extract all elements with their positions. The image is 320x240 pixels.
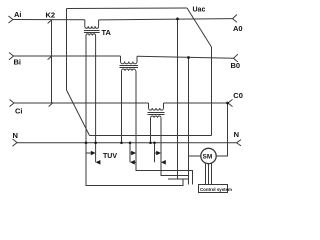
wire motor leads to control box: [206, 163, 212, 184]
wire N line: [17, 142, 237, 144]
wire TUV tap C central hanging from N: [154, 143, 156, 163]
wire phase A line left: [13, 19, 85, 21]
wire bus joining A0 B0 taps: [168, 178, 189, 180]
wire TUV arrow stub B lower: [135, 161, 137, 163]
switch K2 blade on phase A: [48, 19, 53, 23]
wire K2 linkage vertical: [51, 20, 53, 103]
motor SM circle: [201, 148, 216, 163]
terminal A0: [233, 15, 237, 23]
svg-text:Uac: Uac: [193, 7, 206, 14]
wire TA-B secondary right lead going to bus: [136, 71, 193, 185]
junction dot N tap C central: [153, 142, 156, 145]
Uac loop left vertical: [66, 9, 68, 91]
wire TA-C secondary left lead ends at N: [150, 118, 152, 143]
svg-text:Ai: Ai: [14, 10, 22, 19]
wire TUV arrow stub A upper: [86, 152, 91, 154]
svg-text:B0: B0: [231, 61, 241, 70]
wire TA-A secondary right lead: [95, 36, 97, 163]
wire TA-B secondary left lead ends at N: [121, 71, 123, 143]
arrowhead right B: [131, 151, 136, 156]
wire phase A line right: [99, 19, 233, 20]
transformer TA phase A core: [84, 31, 100, 33]
svg-text:N: N: [234, 130, 239, 139]
svg-text:K2: K2: [46, 11, 56, 20]
terminal Ai: [9, 16, 14, 23]
svg-text:TA: TA: [102, 28, 112, 37]
junction dot N tap A left: [85, 142, 88, 145]
terminal Bi: [9, 53, 14, 60]
Uac loop right diagonal: [187, 8, 212, 47]
svg-text:Bi: Bi: [14, 58, 22, 67]
transformer TA phase B primary coil: [121, 62, 138, 64]
transformer TA phase A primary notch: [84, 20, 86, 26]
wire B0 branch to motor: [189, 155, 202, 157]
control system box: [199, 185, 228, 193]
wire B0 tap vertical: [188, 57, 190, 179]
junction dot N tap B left: [120, 142, 123, 145]
Uac loop bottom rail: [90, 135, 212, 137]
transformer TA phase A primary coil: [85, 26, 99, 28]
transformer TA phase C secondary coil: [151, 116, 162, 118]
junction dot N tap C left: [149, 142, 152, 145]
wire C0 tap vertical to motor: [216, 103, 228, 156]
transformer TA phase A secondary coil: [86, 34, 96, 36]
terminal N right: [237, 140, 241, 146]
terminal B0: [234, 54, 238, 62]
transformer TA phase B primary notch: [120, 56, 122, 62]
terminal Ci: [10, 100, 15, 107]
junction dot N tap B central: [129, 142, 132, 145]
wire TA-C secondary right lead going to bus: [161, 118, 189, 185]
transformer TA phase C primary notch: [148, 103, 150, 108]
wire TA-A secondary left lead going to N and bottom bus: [86, 36, 183, 186]
junction dot N tap A right: [94, 142, 97, 145]
svg-text:A0: A0: [233, 24, 243, 33]
wire TUV tap B central hanging from N: [129, 143, 131, 163]
wire phase B line left: [14, 55, 121, 57]
Uac loop top rail: [67, 7, 188, 10]
transformer TA phase C primary coil: [149, 108, 164, 110]
transformer TA phase C core: [148, 113, 165, 115]
wire A0 tap vertical: [177, 19, 179, 179]
wire TUV arrow stub B upper: [130, 152, 132, 154]
arrowhead left A: [96, 160, 101, 165]
arrowhead right C: [156, 151, 161, 156]
switch K2 blade on phase C: [49, 103, 54, 107]
switch K2 blade on phase B: [48, 56, 53, 60]
svg-text:SM: SM: [203, 154, 213, 161]
terminal N left: [13, 139, 18, 146]
arrowhead right A: [91, 151, 96, 156]
wire TUV arrow stub C upper: [155, 152, 157, 154]
junction dot C0: [226, 102, 229, 105]
svg-text:TUV: TUV: [103, 153, 117, 160]
wire phase B line right: [137, 56, 234, 58]
svg-text:C0: C0: [233, 91, 243, 100]
transformer TA phase B secondary coil: [122, 69, 136, 71]
junction dot A0: [176, 18, 179, 21]
junction dot B0: [187, 56, 190, 59]
svg-text:Ci: Ci: [15, 107, 23, 116]
Uac loop left diagonal: [67, 90, 90, 136]
svg-text:N: N: [13, 131, 18, 140]
svg-text:Control system: Control system: [200, 187, 232, 192]
terminal C0: [228, 99, 233, 106]
wire phase C line left: [14, 102, 149, 104]
transformer TA phase B core: [120, 66, 139, 68]
arrowhead left B: [130, 160, 135, 165]
Uac loop right vertical: [211, 47, 213, 136]
arrowhead left C: [161, 160, 166, 165]
wire phase C line right: [164, 102, 229, 104]
